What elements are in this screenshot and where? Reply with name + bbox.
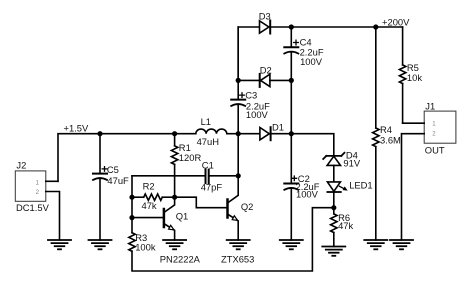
node dot C5 tap: [97, 131, 102, 136]
wire J2 pin1 stub: [46, 180, 58, 182]
wire left column R2 to base tee: [131, 197, 133, 217]
svg-text:DC1.5V: DC1.5V: [16, 202, 50, 213]
svg-text:+1.5V: +1.5V: [64, 122, 90, 133]
svg-text:47uF: 47uF: [107, 175, 129, 186]
svg-text:LED1: LED1: [349, 179, 372, 190]
capacitor C4 2.2uF 100V: [284, 27, 324, 80]
svg-text:+200V: +200V: [382, 16, 410, 27]
connector J2: [15, 159, 49, 212]
node dot R2 left: [129, 195, 134, 200]
svg-text:2: 2: [432, 132, 436, 138]
resistor R5 10k: [399, 27, 422, 123]
node +1.5V label: [64, 122, 90, 133]
svg-text:D1: D1: [272, 122, 284, 133]
svg-text:C1: C1: [202, 160, 214, 171]
wire column x291 D1 to C2: [290, 134, 292, 184]
wire column D1 to C1 junction: [237, 134, 239, 176]
ground Q2: [227, 240, 250, 249]
svg-text:C5: C5: [107, 164, 119, 175]
svg-text:100k: 100k: [135, 241, 156, 252]
wire left column C1 corner down to R2: [131, 176, 133, 197]
svg-text:ZTX653: ZTX653: [221, 254, 254, 265]
wire Q1 collector to Q2 base coupling: [175, 197, 227, 208]
svg-text:PN2222A: PN2222A: [160, 254, 201, 265]
svg-text:47uH: 47uH: [197, 136, 219, 147]
svg-text:100V: 100V: [296, 189, 319, 200]
capacitor C1 47pF: [132, 160, 238, 193]
svg-text:OUT: OUT: [425, 144, 445, 155]
svg-text:47k: 47k: [338, 220, 353, 231]
resistor R2 47k: [132, 181, 175, 212]
svg-text:D3: D3: [259, 11, 271, 22]
wire D1 row to D4 column: [291, 134, 334, 156]
node dot R1 tap: [172, 131, 177, 136]
node dot R4 tap: [373, 24, 378, 29]
LED LED1: [327, 179, 372, 207]
svg-text:1: 1: [36, 181, 40, 187]
svg-text:R4: R4: [380, 124, 392, 135]
resistor R6 47k: [331, 208, 354, 247]
node +200V label: [382, 16, 410, 27]
node dot R2 right: [172, 195, 177, 200]
svg-text:3.6M: 3.6M: [380, 135, 401, 146]
wire J1 pin2 stub: [402, 134, 425, 240]
capacitor C3 2.2uF 100V: [231, 80, 270, 133]
wire D3 row left vertical: [238, 27, 259, 80]
capacitor C5 47uF: [93, 134, 129, 240]
svg-text:91V: 91V: [343, 158, 360, 169]
svg-text:D2: D2: [260, 64, 272, 75]
wire +1.5V rail left segment: [58, 134, 196, 182]
svg-text:100V: 100V: [300, 56, 323, 67]
svg-text:J2: J2: [16, 159, 26, 170]
inductor L1 47uH: [196, 116, 238, 147]
resistor R4 3.6M: [373, 27, 401, 240]
transistor Q1 PN2222A: [132, 197, 201, 265]
ground R6: [322, 247, 345, 256]
svg-text:47k: 47k: [142, 200, 157, 211]
node dot D3 cathode: [289, 24, 294, 29]
diode D2: [238, 64, 291, 87]
svg-text:R2: R2: [143, 181, 155, 192]
ground R4: [364, 240, 387, 249]
resistor R1 120R: [171, 134, 201, 198]
wire J2 pin2 stub: [46, 192, 60, 241]
ground C2: [280, 240, 303, 249]
node dot D1 cathode junction: [289, 131, 294, 136]
transistor Q2 ZTX653: [221, 176, 254, 265]
svg-text:Q2: Q2: [241, 201, 254, 212]
svg-text:Q1: Q1: [176, 211, 189, 222]
node dot D2 left: [236, 78, 241, 83]
svg-text:120R: 120R: [179, 152, 202, 163]
diode D1: [238, 122, 291, 141]
node dot D1 anode junction: [236, 131, 241, 136]
wire column C3 upper: [237, 27, 239, 80]
wire bottom feedback: [132, 208, 334, 271]
wire +200V top: [291, 26, 402, 28]
resistor R3 100k: [129, 218, 156, 253]
svg-text:10k: 10k: [407, 72, 422, 83]
ground J2: [48, 240, 71, 249]
svg-text:C3: C3: [245, 90, 257, 101]
ground J1: [390, 240, 413, 249]
wire column x291 D2 to D1: [290, 80, 292, 133]
svg-text:100V: 100V: [246, 109, 269, 120]
svg-text:L1: L1: [201, 116, 211, 127]
zener diode D4 91V: [323, 150, 361, 182]
ground C5: [89, 240, 112, 249]
svg-text:J1: J1: [425, 101, 435, 112]
diode D3: [259, 11, 292, 34]
node dot Q1 base tee: [129, 215, 134, 220]
connector J1: [424, 101, 456, 156]
ground Q1: [163, 240, 186, 249]
svg-text:1: 1: [432, 122, 436, 128]
capacitor C2 2.2uF 100V: [284, 173, 319, 240]
node dot D2 right: [289, 78, 294, 83]
svg-text:2: 2: [36, 190, 40, 196]
svg-text:47pF: 47pF: [201, 182, 223, 193]
wire J1 pin1 stub: [403, 122, 425, 124]
node dot LED/R6 junction: [331, 205, 336, 210]
node dot C1 right / Q2 collector junction: [236, 173, 241, 178]
